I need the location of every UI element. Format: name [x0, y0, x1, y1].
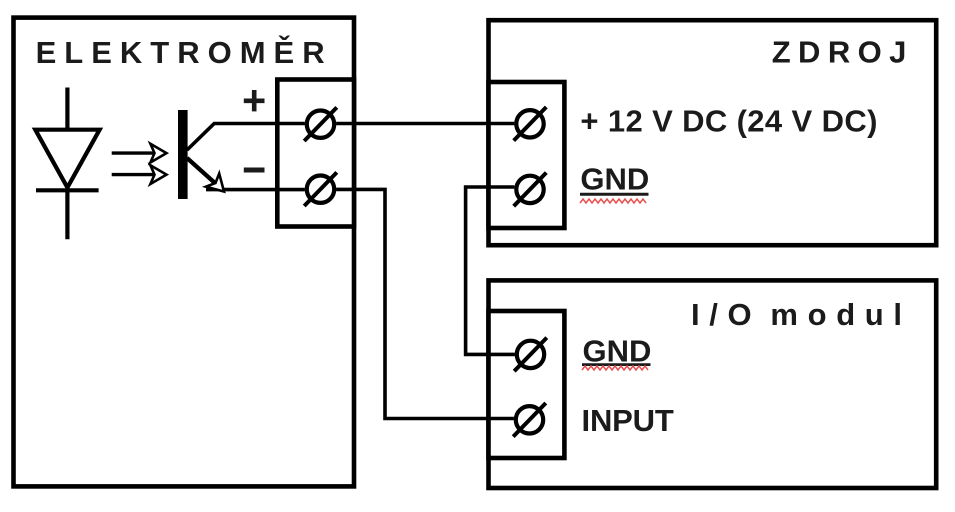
label + polarity horizontal bar	[244, 99, 265, 104]
wire GND (zdroj GND to I/O GND)	[466, 187, 515, 354]
box ELEKTROMER enclosure	[14, 18, 355, 487]
terminal IO GND circle	[517, 341, 544, 368]
underline GND (zdroj)	[580, 193, 649, 196]
terminal block TB1 (elektromer)	[277, 80, 354, 227]
spellcheck squiggle GND (zdroj)	[580, 199, 646, 203]
terminal E- slash	[304, 172, 337, 206]
underline GND (I/O)	[582, 363, 651, 366]
wire + (between terminals E+ to Z+)	[336, 122, 514, 126]
phototransistor Q1 emitter line	[187, 158, 216, 184]
light arrow 1 open head	[150, 144, 166, 163]
wire + (collector to +12V terminal)	[187, 124, 305, 151]
terminal block TB2 (zdroj)	[489, 82, 565, 228]
LED diode D1 anode lead	[65, 88, 69, 131]
terminal IO GND slash	[514, 338, 547, 372]
terminal Z GND circle	[516, 176, 543, 203]
LED diode D1 cathode bar	[36, 188, 99, 192]
terminal Z+ slash	[514, 107, 547, 141]
light arrow 1 shaft	[112, 151, 154, 154]
svg-text:I / O m o d u l: I / O m o d u l	[691, 297, 902, 332]
terminal E- circle	[307, 176, 334, 203]
LED diode D1 triangle	[35, 130, 99, 188]
svg-text:+ 12 V DC (24 V DC): + 12 V DC (24 V DC)	[580, 104, 877, 139]
terminal Z+ circle	[516, 110, 543, 137]
phototransistor Q1 emitter open arrowhead	[206, 174, 224, 192]
terminal IO INPUT slash	[513, 403, 546, 437]
box I/O modul enclosure	[489, 280, 937, 488]
wire minus terminal to INPUT terminal	[336, 189, 514, 418]
light arrow 2 shaft	[112, 173, 154, 176]
terminal IO INPUT circle	[516, 406, 543, 433]
phototransistor Q1 base bar	[178, 110, 188, 199]
svg-text:GND: GND	[580, 161, 649, 196]
svg-text:INPUT: INPUT	[582, 403, 674, 438]
box ZDROJ enclosure	[489, 20, 937, 245]
light arrow 2 open head	[150, 165, 166, 184]
terminal Z GND slash	[514, 173, 547, 207]
terminal E+ circle	[307, 111, 334, 138]
wire - (emitter to minus terminal)	[206, 188, 305, 192]
terminal block TB3 (I/O modul)	[489, 311, 565, 458]
label + polarity vertical bar	[252, 90, 257, 111]
label - polarity bar	[244, 168, 265, 173]
spellcheck squiggle GND (I/O)	[582, 366, 648, 370]
terminal E+ slash	[304, 107, 337, 141]
svg-text:ELEKTROMĚR: ELEKTROMĚR	[36, 34, 325, 70]
LED diode D1 cathode lead	[65, 190, 69, 239]
